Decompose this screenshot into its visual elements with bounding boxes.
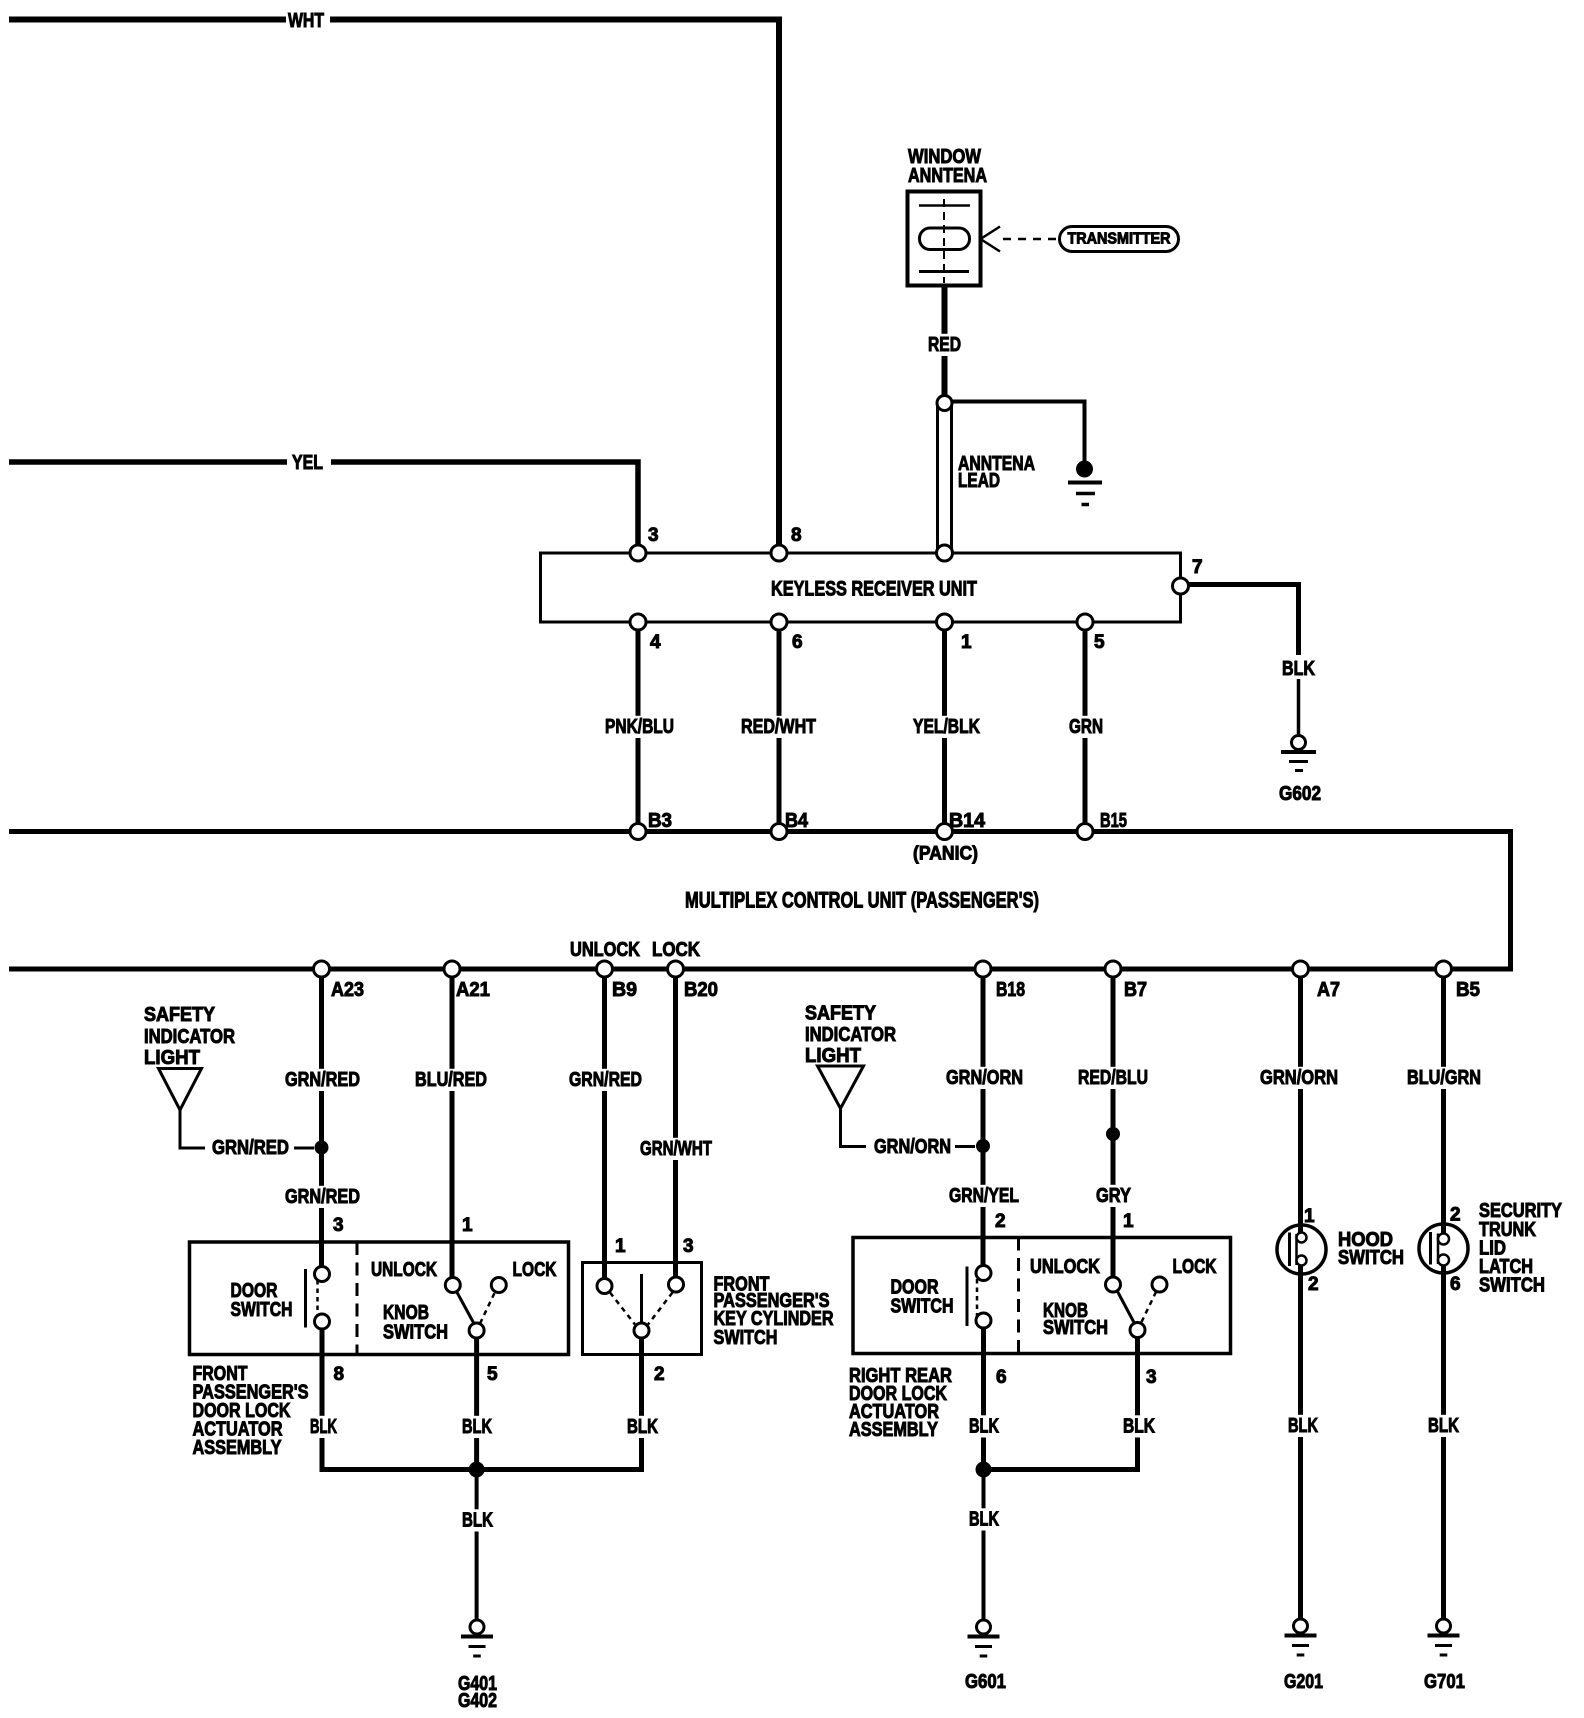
svg-text:7: 7	[1192, 557, 1203, 578]
svg-text:GRN/ORN: GRN/ORN	[874, 1136, 951, 1158]
svg-text:ASSEMBLY: ASSEMBLY	[849, 1419, 939, 1441]
svg-text:B5: B5	[1456, 979, 1480, 1001]
svg-text:BLK: BLK	[310, 1416, 337, 1438]
svg-text:GRN/RED: GRN/RED	[569, 1069, 642, 1091]
svg-text:5: 5	[487, 1364, 498, 1385]
svg-text:UNLOCK: UNLOCK	[570, 939, 640, 961]
svg-text:G701: G701	[1424, 1671, 1465, 1693]
svg-text:SAFETY: SAFETY	[805, 1003, 877, 1025]
svg-text:6: 6	[996, 1367, 1007, 1388]
svg-text:G402: G402	[458, 1690, 497, 1712]
svg-text:GRN/RED: GRN/RED	[212, 1137, 289, 1159]
svg-text:SWITCH: SWITCH	[1479, 1275, 1545, 1297]
svg-text:B18: B18	[996, 979, 1025, 1001]
svg-text:2: 2	[654, 1364, 665, 1385]
svg-text:BLK: BLK	[462, 1510, 493, 1532]
svg-text:SWITCH: SWITCH	[231, 1299, 293, 1321]
svg-text:B7: B7	[1124, 979, 1147, 1001]
svg-text:8: 8	[791, 525, 802, 546]
svg-text:SWITCH: SWITCH	[714, 1327, 778, 1349]
svg-text:BLK: BLK	[462, 1416, 492, 1438]
svg-text:INDICATOR: INDICATOR	[144, 1026, 235, 1048]
svg-text:3: 3	[1146, 1367, 1157, 1388]
svg-text:B15: B15	[1100, 810, 1127, 832]
svg-text:YEL/BLK: YEL/BLK	[913, 716, 980, 738]
svg-text:A7: A7	[1317, 979, 1340, 1001]
svg-text:YEL: YEL	[292, 452, 323, 474]
svg-text:BLK: BLK	[1123, 1416, 1155, 1438]
svg-text:BLU/RED: BLU/RED	[415, 1069, 487, 1091]
svg-text:ASSEMBLY: ASSEMBLY	[193, 1437, 283, 1459]
svg-text:LOCK: LOCK	[513, 1259, 557, 1281]
svg-text:UNLOCK: UNLOCK	[371, 1259, 437, 1281]
svg-text:PNK/BLU: PNK/BLU	[605, 716, 674, 738]
svg-text:A21: A21	[456, 979, 490, 1001]
svg-text:RED/WHT: RED/WHT	[741, 716, 816, 738]
svg-text:2: 2	[1450, 1205, 1461, 1226]
svg-text:GRN/WHT: GRN/WHT	[640, 1138, 712, 1160]
svg-text:BLU/GRN: BLU/GRN	[1407, 1067, 1481, 1089]
svg-text:1: 1	[961, 632, 972, 653]
svg-text:SAFETY: SAFETY	[144, 1004, 216, 1026]
svg-text:BLK: BLK	[1428, 1415, 1459, 1437]
svg-text:SWITCH: SWITCH	[383, 1322, 448, 1344]
svg-text:UNLOCK: UNLOCK	[1030, 1256, 1100, 1278]
svg-text:GRN/ORN: GRN/ORN	[1260, 1067, 1338, 1089]
svg-text:B9: B9	[612, 979, 637, 1001]
svg-text:SWITCH: SWITCH	[1338, 1247, 1404, 1269]
svg-text:LOCK: LOCK	[1173, 1256, 1217, 1278]
svg-text:WHT: WHT	[288, 10, 324, 32]
svg-text:(PANIC): (PANIC)	[913, 844, 978, 865]
svg-text:GRN/ORN: GRN/ORN	[946, 1067, 1023, 1089]
svg-text:1: 1	[615, 1236, 626, 1257]
svg-text:GRN/RED: GRN/RED	[285, 1069, 360, 1091]
svg-text:G601: G601	[965, 1671, 1006, 1693]
svg-text:1: 1	[1123, 1211, 1134, 1232]
svg-text:GRN: GRN	[1069, 716, 1103, 738]
svg-text:3: 3	[333, 1215, 344, 1236]
svg-text:MULTIPLEX CONTROL UNIT (PASSEN: MULTIPLEX CONTROL UNIT (PASSENGER'S)	[685, 888, 1039, 913]
svg-text:GRN/YEL: GRN/YEL	[949, 1185, 1019, 1207]
svg-text:TRANSMITTER: TRANSMITTER	[1068, 231, 1171, 248]
svg-text:B3: B3	[648, 810, 672, 832]
svg-text:B4: B4	[785, 810, 809, 832]
svg-text:KEYLESS RECEIVER UNIT: KEYLESS RECEIVER UNIT	[771, 578, 977, 601]
svg-text:8: 8	[334, 1364, 345, 1385]
svg-text:SWITCH: SWITCH	[891, 1296, 954, 1318]
svg-text:2: 2	[995, 1211, 1006, 1232]
svg-text:6: 6	[1450, 1274, 1461, 1295]
svg-text:INDICATOR: INDICATOR	[805, 1024, 896, 1046]
svg-text:GRN/RED: GRN/RED	[285, 1186, 360, 1208]
svg-text:1: 1	[1304, 1206, 1315, 1227]
svg-text:5: 5	[1094, 632, 1105, 653]
svg-text:BLK: BLK	[1288, 1415, 1318, 1437]
svg-text:4: 4	[650, 632, 661, 653]
svg-text:GRY: GRY	[1096, 1185, 1132, 1207]
svg-text:BLK: BLK	[969, 1509, 999, 1531]
svg-text:RED: RED	[928, 334, 961, 356]
svg-text:G602: G602	[1279, 783, 1321, 805]
svg-text:BLK: BLK	[1282, 658, 1315, 680]
svg-text:RED/BLU: RED/BLU	[1078, 1067, 1148, 1089]
svg-text:3: 3	[648, 525, 659, 546]
svg-text:ANNTENA: ANNTENA	[908, 165, 987, 187]
svg-text:BLK: BLK	[627, 1416, 658, 1438]
svg-text:G201: G201	[1284, 1671, 1323, 1693]
svg-text:B20: B20	[684, 979, 718, 1001]
svg-text:LEAD: LEAD	[958, 470, 1000, 492]
svg-text:A23: A23	[331, 979, 364, 1001]
svg-text:1: 1	[462, 1215, 473, 1236]
svg-text:LIGHT: LIGHT	[144, 1047, 200, 1069]
svg-text:LOCK: LOCK	[652, 939, 700, 961]
svg-text:BLK: BLK	[969, 1416, 999, 1438]
svg-text:6: 6	[792, 632, 803, 653]
svg-text:LIGHT: LIGHT	[805, 1045, 861, 1067]
svg-text:SWITCH: SWITCH	[1043, 1317, 1108, 1339]
svg-text:2: 2	[1308, 1274, 1319, 1295]
svg-text:3: 3	[683, 1236, 694, 1257]
svg-text:B14: B14	[949, 810, 986, 832]
